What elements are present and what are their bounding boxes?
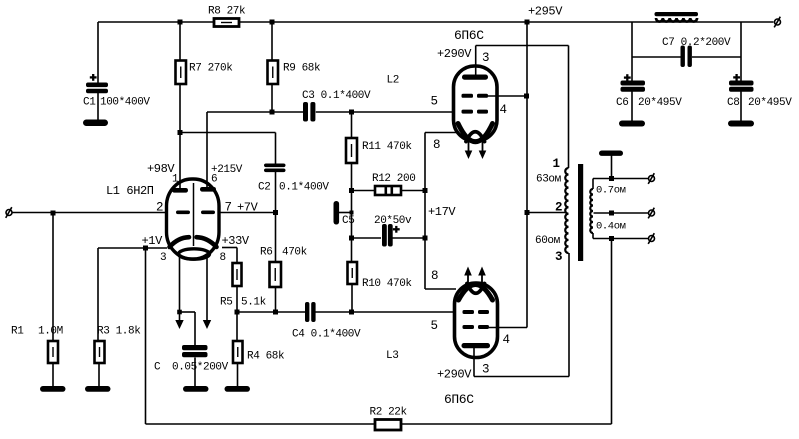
- L2 screen grid dashes: [462, 94, 489, 98]
- svg-text:0.05*200V: 0.05*200V: [172, 362, 229, 374]
- wire primary center tap: [527, 212, 566, 214]
- svg-text:C5: C5: [342, 215, 354, 227]
- L1 heater loop: [179, 249, 210, 259]
- wire anode L3 across: [474, 376, 569, 378]
- wire heater left L1: [179, 257, 181, 321]
- svg-text:60ом: 60ом: [535, 235, 561, 247]
- svg-text:4: 4: [500, 103, 507, 117]
- junction input R1: [51, 211, 56, 216]
- choke core bar: [655, 12, 699, 16]
- input terminal: [6, 207, 12, 218]
- pentode L3 envelope: [455, 283, 498, 358]
- wire C2 top drop: [275, 133, 277, 165]
- L1 cathode arc pin3: [170, 237, 190, 247]
- wire grid7: [219, 212, 276, 214]
- svg-text:C3 0.1*400V: C3 0.1*400V: [302, 90, 371, 102]
- capacitor C7: [681, 46, 692, 68]
- junction rail R7: [178, 20, 183, 25]
- wire cathode L3: [425, 288, 456, 290]
- svg-text:L3: L3: [386, 350, 398, 362]
- svg-text:6П6С: 6П6С: [454, 28, 484, 43]
- wire R1 to ground: [52, 363, 54, 386]
- triode L1 envelope: [167, 179, 220, 259]
- wire secondary tap1: [593, 178, 648, 180]
- polarity + of C8: [733, 74, 740, 81]
- svg-text:R9 68k: R9 68k: [283, 63, 321, 75]
- wire secondary ground drop: [611, 156, 613, 179]
- wire anode L3 down: [473, 348, 475, 377]
- junction C5 left: [349, 236, 354, 241]
- wire C1 to ground: [97, 92, 99, 120]
- svg-text:C2: C2: [258, 182, 270, 194]
- ground under C8: [728, 121, 754, 127]
- L2 cathode arc: [458, 124, 493, 142]
- choke winding: [656, 18, 697, 22]
- L1 grid dash pin7: [201, 211, 215, 215]
- svg-text:6П6С: 6П6С: [444, 392, 474, 407]
- svg-text:20*50v: 20*50v: [374, 215, 412, 227]
- wire C5 to cathode column: [391, 237, 425, 239]
- wire R7 to anode pin1: [179, 84, 181, 189]
- wire input to grid2: [12, 212, 168, 214]
- L2 heater arrow left: [465, 142, 473, 159]
- svg-text:R6: R6: [260, 247, 272, 259]
- svg-text:3: 3: [482, 51, 489, 65]
- wire C7 right: [692, 56, 741, 58]
- svg-text:C1: C1: [83, 97, 96, 109]
- heater arrowhead left L1: [175, 320, 183, 329]
- wire feedback drop: [145, 248, 147, 424]
- capacitor C1: [86, 83, 108, 94]
- svg-text:0.1*400V: 0.1*400V: [279, 182, 329, 194]
- svg-text:7: 7: [225, 201, 232, 215]
- resistor R7: [176, 61, 187, 85]
- svg-text:5: 5: [431, 95, 438, 109]
- svg-text:0.7ом: 0.7ом: [596, 185, 626, 197]
- capacitor C4: [305, 302, 316, 322]
- capacitor C2: [264, 164, 286, 173]
- L3 anode bar: [462, 343, 491, 348]
- junction pin3 feedback: [143, 246, 148, 251]
- svg-text:2: 2: [156, 201, 163, 215]
- wire C8 to ground: [740, 92, 742, 122]
- junction tap3: [609, 236, 614, 241]
- terminal +295V output: [774, 17, 780, 28]
- wire column to R10: [351, 238, 353, 262]
- wire secondary top stub: [592, 179, 594, 190]
- junction center tap: [525, 210, 530, 215]
- junction R12 left: [349, 188, 354, 193]
- svg-text:+290V: +290V: [437, 47, 472, 61]
- svg-text:R5: R5: [220, 297, 232, 309]
- resistor R8: [214, 19, 239, 27]
- wire to R3: [97, 248, 99, 341]
- wire R9 down: [271, 84, 273, 112]
- svg-text:100*400V: 100*400V: [100, 97, 150, 109]
- svg-text:+215V: +215V: [211, 164, 243, 176]
- wire node to R4: [236, 312, 238, 341]
- svg-text:R12 200: R12 200: [372, 173, 415, 185]
- ground under C: [183, 386, 209, 392]
- resistor R5: [233, 263, 242, 286]
- junction bar column: [350, 211, 354, 215]
- junction tap1: [609, 176, 614, 181]
- svg-text:20*495V: 20*495V: [748, 97, 792, 109]
- svg-text:+1V: +1V: [142, 234, 164, 248]
- L2 anode bar: [462, 75, 488, 80]
- wire C1 drop: [97, 22, 99, 83]
- wire pin3 lead: [98, 247, 167, 249]
- L3 control grid dashes: [463, 310, 490, 314]
- output terminal 0.4om: [648, 233, 654, 244]
- svg-text:5: 5: [431, 319, 438, 333]
- svg-text:0.4ом: 0.4ом: [596, 221, 626, 233]
- wire R4 to ground: [237, 363, 239, 386]
- svg-text:L1 6Н2П: L1 6Н2П: [106, 184, 154, 198]
- polarity + of C5: [393, 226, 400, 233]
- transformer secondary winding: [590, 189, 593, 233]
- wire anode L2 across: [476, 45, 569, 47]
- wire feedback from tap3: [611, 239, 613, 425]
- ground under R1: [40, 386, 66, 392]
- junction rail +295V: [525, 20, 530, 25]
- capacitor C6: [621, 81, 646, 92]
- wire top +295V rail: [98, 21, 774, 23]
- wire bar to column: [339, 212, 352, 214]
- wire pin8 to R5: [236, 248, 238, 264]
- wire secondary tap2: [594, 212, 649, 214]
- wire grid line to R11: [351, 112, 353, 138]
- svg-text:L2: L2: [387, 75, 399, 87]
- wire secondary bottom stub: [592, 233, 594, 239]
- wire to R1: [52, 213, 54, 341]
- pentode L2 envelope: [454, 66, 498, 141]
- wire rail to R9: [271, 22, 273, 61]
- heater arrowhead right L1: [203, 320, 211, 329]
- junction node anode1: [178, 130, 183, 135]
- capacitor C3: [303, 102, 315, 122]
- svg-text:+7V: +7V: [237, 201, 259, 215]
- wire rail to R7: [179, 22, 181, 61]
- svg-text:1: 1: [553, 157, 560, 171]
- wire C2 to grid7 node: [275, 172, 277, 213]
- svg-text:R8 27k: R8 27k: [208, 6, 246, 18]
- svg-text:R10 470k: R10 470k: [362, 278, 412, 290]
- svg-text:5.1k: 5.1k: [241, 297, 267, 309]
- wire anode2 to C3: [207, 111, 303, 113]
- resistor R12: [375, 186, 401, 195]
- L1 anode bar pin1: [172, 188, 188, 193]
- resistor R11: [346, 138, 357, 163]
- polarity + of C1: [90, 74, 97, 81]
- svg-text:2: 2: [555, 201, 562, 215]
- wire anode L3 to primary: [568, 253, 570, 377]
- resistor R1: [48, 341, 58, 363]
- L1 anode bar pin6: [200, 187, 216, 192]
- output terminal mid: [648, 208, 654, 219]
- output terminal 0.7om: [648, 173, 654, 184]
- wire secondary tap3: [593, 238, 648, 240]
- ground under R3: [85, 386, 111, 392]
- junction C5 right: [423, 236, 428, 241]
- wire C7 left: [632, 56, 681, 58]
- wire +295V column: [526, 22, 528, 328]
- L3 heater arrow left: [464, 267, 472, 284]
- L1 internal divider: [193, 183, 195, 246]
- ground under C1: [83, 120, 108, 127]
- svg-text:4: 4: [503, 333, 510, 347]
- svg-text:470k: 470k: [282, 247, 308, 259]
- wire node to R6: [275, 213, 277, 263]
- svg-text:R11 470k: R11 470k: [362, 141, 412, 153]
- wire R6 down: [275, 287, 277, 312]
- wire R5 to node: [236, 286, 238, 312]
- wire pin6 riser: [206, 112, 208, 188]
- svg-text:8: 8: [433, 138, 440, 152]
- svg-text:3: 3: [160, 252, 166, 264]
- wire cathode column: [424, 133, 426, 290]
- svg-text:1.0M: 1.0M: [38, 326, 63, 338]
- wire heater right L1: [206, 257, 208, 321]
- svg-text:+33V: +33V: [222, 234, 250, 248]
- L3 screen grid dashes: [463, 325, 490, 329]
- svg-text:C8: C8: [727, 97, 739, 109]
- resistor R10: [348, 262, 358, 284]
- ground secondary: [599, 151, 623, 156]
- junction grid7 node: [273, 210, 278, 215]
- ground under R4: [225, 386, 251, 392]
- L1 cathode arc pin8: [197, 237, 217, 247]
- svg-text:3: 3: [482, 363, 489, 377]
- junction y312 R10: [349, 310, 354, 315]
- polarity + of C6: [624, 74, 631, 81]
- svg-text:+17V: +17V: [428, 205, 456, 219]
- resistor R6: [270, 262, 282, 287]
- junction rail R9: [270, 20, 275, 25]
- wire R12 to cathode column: [401, 190, 425, 192]
- svg-text:+98V: +98V: [147, 162, 175, 176]
- plate bar node marker: [334, 201, 340, 225]
- capacitor C5: [382, 224, 393, 247]
- resistor R2: [375, 420, 401, 431]
- wire R3 to ground: [98, 363, 100, 386]
- svg-text:+290V: +290V: [437, 368, 472, 382]
- wire C4 to grid L3: [315, 311, 455, 313]
- wire C3 to grid L2: [316, 111, 455, 113]
- junction y312 R6: [273, 310, 278, 315]
- wire screen L3: [489, 327, 527, 329]
- wire bottom feedback: [146, 423, 612, 425]
- svg-text:R4 68k: R4 68k: [247, 351, 285, 363]
- svg-text:C7 0.2*200V: C7 0.2*200V: [662, 37, 731, 49]
- wire C6 to ground: [631, 92, 633, 122]
- svg-text:C6: C6: [616, 97, 628, 109]
- capacitor C8: [729, 81, 754, 92]
- junction R12 right: [423, 188, 428, 193]
- L1 grid dash pin2: [176, 211, 190, 215]
- junction y312 R5: [235, 310, 240, 315]
- L3 heater dome: [467, 284, 485, 294]
- junction heater cap: [177, 310, 182, 315]
- resistor R9: [268, 61, 279, 85]
- wire anode L2 up: [475, 46, 477, 76]
- wire jog to cap C: [180, 311, 196, 313]
- wire cathode L2: [425, 132, 456, 134]
- wire anode L2 to primary: [568, 46, 570, 169]
- wire screen L2: [488, 95, 527, 97]
- L3 heater arrow right: [478, 267, 486, 284]
- svg-text:R3 1.8k: R3 1.8k: [97, 326, 141, 338]
- wire rail to C6: [631, 22, 633, 81]
- junction screen L2: [524, 94, 529, 99]
- L3 cathode arc: [459, 285, 493, 301]
- L2 heater dome: [466, 132, 485, 142]
- resistor R3: [95, 341, 105, 363]
- wire R5R4 node to C4: [237, 311, 305, 313]
- L2 control grid dashes: [462, 110, 489, 114]
- svg-text:63ом: 63ом: [536, 174, 562, 186]
- svg-text:R1: R1: [11, 326, 24, 338]
- svg-text:20*495V: 20*495V: [638, 97, 682, 109]
- svg-text:C4 0.1*400V: C4 0.1*400V: [292, 329, 361, 341]
- svg-text:C: C: [154, 362, 161, 374]
- wire rail to C8: [740, 22, 742, 81]
- L2 heater arrow right: [479, 142, 487, 159]
- wire to C5: [352, 237, 382, 239]
- junction y112 R9: [270, 110, 275, 115]
- svg-text:8: 8: [431, 269, 438, 283]
- transformer core: [578, 164, 583, 261]
- transformer primary winding: [565, 168, 568, 253]
- svg-text:R7 270k: R7 270k: [189, 63, 233, 75]
- wire pin8 lead: [222, 247, 237, 249]
- wire cap C drop: [194, 312, 196, 345]
- wire anode1 to C2: [180, 132, 276, 134]
- svg-text:3: 3: [555, 250, 562, 264]
- svg-text:R2 22k: R2 22k: [370, 407, 408, 419]
- junction tap2: [609, 211, 614, 216]
- svg-text:+295V: +295V: [528, 5, 563, 19]
- wire R10 down: [351, 284, 353, 312]
- resistor R4: [233, 341, 243, 363]
- wire cap C to ground: [194, 358, 196, 387]
- capacitor C: [182, 345, 208, 357]
- wire to R12: [352, 190, 376, 192]
- junction y112 R11: [349, 110, 354, 115]
- ground under C6: [619, 121, 645, 127]
- svg-text:8: 8: [220, 252, 226, 264]
- wire R11 to R12 node: [351, 163, 353, 238]
